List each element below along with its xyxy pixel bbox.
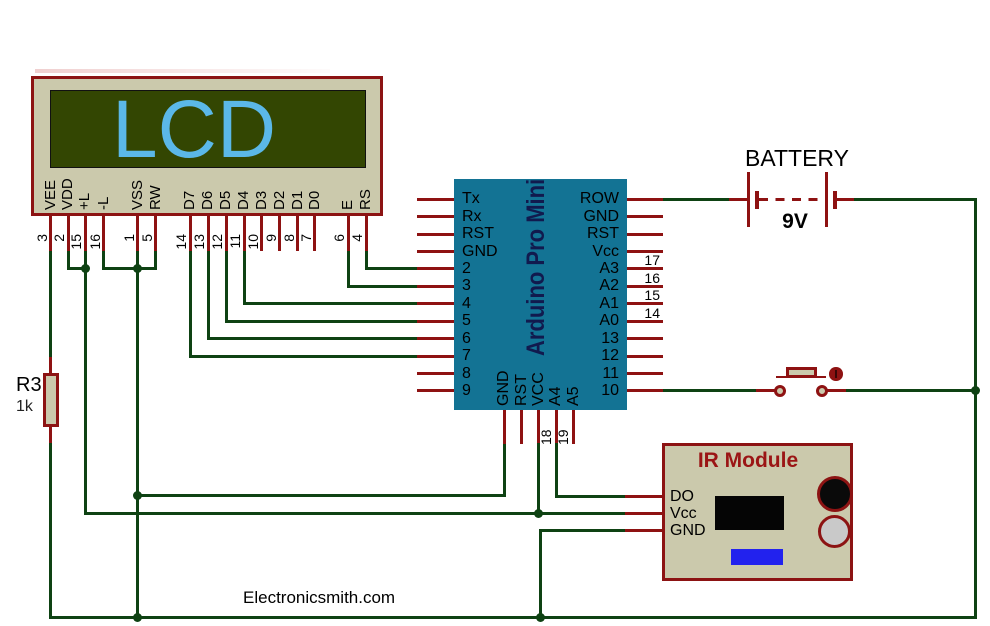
Arduino left pin label 7 [462, 347, 471, 365]
Arduino right pin stub ROW [627, 198, 663, 201]
LCD pin number 1 [121, 234, 137, 250]
wire D5 down [225, 251, 228, 323]
LCD pin D7 stub [189, 216, 192, 251]
node GND net junction bottom [133, 613, 142, 622]
battery dashed link [759, 198, 826, 201]
LCD module body LCD1 [31, 76, 383, 216]
Arduino left pin label 9 [462, 382, 471, 400]
Arduino pin number 17 [615, 252, 660, 268]
wire D4 down [243, 251, 246, 305]
wire VEE pin3 to R3 [49, 251, 52, 357]
LCD pin number 9 [263, 234, 279, 250]
Arduino right pin label RST [520, 225, 619, 243]
Arduino bottom pin label A4 [548, 386, 564, 406]
LCD pin label -L [96, 197, 112, 210]
LCD pin label VEE [43, 180, 59, 210]
wire A4 down [555, 443, 558, 497]
button SW1 right terminal [816, 385, 828, 397]
IR gray round sensor [818, 515, 851, 548]
Arduino left pin stub 9 [417, 389, 454, 392]
Arduino left pin label 6 [462, 330, 471, 348]
wire IR GND down [539, 530, 542, 619]
LCD pin D5 stub [225, 216, 228, 251]
Arduino left pin label RST [462, 225, 494, 243]
Arduino Pro Mini body U1 [454, 179, 627, 410]
button actuator bar [776, 376, 826, 379]
node VCC junction [534, 509, 543, 518]
IR pin Vcc stub [625, 512, 662, 515]
wire right rail vertical [974, 199, 977, 619]
wire D7 to Arduino pin7 [189, 355, 418, 358]
Arduino left pin label 8 [462, 365, 471, 383]
wire VSS pin1 down [136, 251, 139, 268]
Arduino right pin stub 13 [627, 337, 663, 340]
Arduino left pin stub Rx [417, 215, 454, 218]
LCD pin number 10 [245, 234, 261, 250]
Arduino left pin stub 4 [417, 302, 454, 305]
wire E to Arduino pin3 [347, 285, 418, 288]
IR black round sensor [817, 476, 853, 512]
LCD pin label D0 [307, 191, 323, 210]
Arduino right pin label A2 [520, 277, 619, 295]
LCD pin label VSS [130, 180, 146, 210]
battery plate short left [755, 191, 759, 210]
Arduino right pin stub 11 [627, 372, 663, 375]
LCD pin label RW [148, 185, 164, 210]
Arduino left pin label 2 [462, 260, 471, 278]
LCD pin label D7 [182, 191, 198, 210]
LCD pin RS stub [365, 216, 368, 251]
battery plate long right [825, 172, 828, 227]
LCD pin number 5 [139, 234, 155, 250]
LCD pin number 14 [173, 234, 189, 250]
LCD pin D2 stub [278, 216, 281, 251]
node GND net junction top [133, 264, 142, 273]
wire Arduino pin10 to button [663, 389, 757, 392]
Arduino left pin stub 6 [417, 337, 454, 340]
LCD pin number 2 [51, 234, 67, 250]
IR Module body [662, 443, 853, 581]
Arduino left pin stub 5 [417, 320, 454, 323]
wire VCC net vertical [84, 268, 87, 515]
wire E down [347, 251, 350, 288]
node IR GND junction [536, 613, 545, 622]
LCD pin label D6 [200, 191, 216, 210]
LCD pin D0 stub [313, 216, 316, 251]
LCD pin label VDD [60, 178, 76, 210]
IR receiver black box [715, 496, 784, 530]
button interactive knob [829, 367, 843, 381]
resistor R3 label [16, 374, 42, 396]
LCD pin label E [340, 200, 356, 210]
LCD pin label D4 [236, 191, 252, 210]
Arduino pin number 16 [615, 270, 660, 286]
wire D4 to Arduino pin4 [243, 302, 418, 305]
Arduino left pin stub 8 [417, 372, 454, 375]
wire -L pin16 down [102, 251, 105, 270]
Arduino left pin stub 2 [417, 267, 454, 270]
wire VCC net horizontal to IR Vcc [84, 512, 625, 515]
Arduino pin number 19 [555, 429, 571, 445]
Arduino right pin label 13 [520, 330, 619, 348]
LCD pin number 15 [68, 234, 84, 250]
wire +L pin15 down [84, 251, 87, 268]
LCD pin number 16 [87, 234, 103, 250]
Arduino pin number 15 [615, 287, 660, 303]
Arduino right pin stub A2 [627, 285, 663, 288]
Arduino bottom pin label VCC [531, 372, 547, 406]
IR pin GND stub [625, 529, 662, 532]
Arduino right pin label GND [520, 208, 619, 226]
Arduino right pin stub A0 [627, 320, 663, 323]
Arduino right pin label A0 [520, 312, 619, 330]
IR blue LED window [731, 549, 783, 565]
wire GND net to Arduino GND [138, 494, 506, 497]
Arduino right pin label 11 [520, 365, 619, 383]
wire battery to right rail [854, 198, 977, 201]
resistor R3 top lead [49, 357, 52, 373]
wire D7 down [189, 251, 192, 358]
wire A4 to IR DO [555, 495, 625, 498]
node VDD/+L junction [81, 264, 90, 273]
wire RW pin5 down [154, 251, 157, 270]
wire ROW to battery [663, 198, 730, 201]
Arduino left pin stub 7 [417, 355, 454, 358]
Arduino left pin stub GND [417, 250, 454, 253]
LCD pin D1 stub [296, 216, 299, 251]
LCD screen text [112, 96, 276, 164]
Arduino right pin label 12 [520, 347, 619, 365]
Arduino right pin label Vcc [520, 243, 619, 261]
Arduino right pin label A1 [520, 295, 619, 313]
IR pin label GND [670, 522, 706, 540]
Arduino bottom pin stub A4 [555, 410, 558, 444]
LCD pin number 6 [331, 234, 347, 250]
wire D6 down [207, 251, 210, 340]
LCD pin number 4 [349, 234, 365, 250]
Arduino right pin label A3 [520, 260, 619, 278]
node GND net junction mid [133, 491, 142, 500]
LCD pin -L stub [102, 216, 105, 251]
LCD pin D4 stub [243, 216, 246, 251]
LCD pin label D1 [290, 191, 306, 210]
battery left lead [729, 198, 750, 201]
wire bottom ground rail [49, 616, 977, 619]
Arduino left pin label 5 [462, 312, 471, 330]
Arduino bottom pin label GND [496, 370, 512, 406]
LCD pin VSS stub [136, 216, 139, 251]
Arduino left pin stub RST [417, 233, 454, 236]
Arduino left pin label 4 [462, 295, 471, 313]
LCD pin VDD stub [67, 216, 70, 251]
LCD pin number 12 [209, 234, 225, 250]
wire R3 to bottom rail [49, 443, 52, 619]
button left lead [756, 389, 776, 392]
button SW1 left terminal [774, 385, 786, 397]
Arduino pin number 18 [538, 429, 554, 445]
Arduino right pin stub 10 [627, 389, 663, 392]
IR pin label Vcc [670, 505, 697, 523]
wire Arduino VCC down [537, 443, 540, 513]
Arduino right pin stub RST [627, 233, 663, 236]
node button/right-rail junction [971, 386, 980, 395]
wire button to right rail [846, 389, 975, 392]
Arduino pin number 14 [615, 305, 660, 321]
Arduino right pin stub 12 [627, 355, 663, 358]
resistor R3 bottom lead [49, 427, 52, 443]
Arduino right pin stub Vcc [627, 250, 663, 253]
LCD screen display area [50, 90, 366, 168]
LCD pin number 13 [191, 234, 207, 250]
Arduino bottom pin stub GND [503, 410, 506, 444]
resistor R3 body [43, 373, 59, 427]
button actuator cap [786, 367, 817, 378]
IR Module title [688, 449, 808, 472]
Arduino bottom pin stub RST [520, 410, 523, 444]
LCD pin label D5 [218, 191, 234, 210]
Arduino right pin label ROW [520, 190, 619, 208]
Arduino left pin stub 3 [417, 285, 454, 288]
Arduino right pin label 10 [520, 382, 619, 400]
Arduino bottom pin label A5 [566, 386, 582, 406]
LCD pin D3 stub [260, 216, 263, 251]
wire IR GND left [539, 529, 626, 532]
battery plate short right [833, 191, 837, 210]
wire D5 to Arduino pin5 [225, 320, 418, 323]
Arduino left pin label GND [462, 243, 498, 261]
wire Arduino GND down [503, 444, 506, 497]
LCD pin label D2 [272, 191, 288, 210]
LCD pin number 7 [298, 234, 314, 250]
LCD pin D6 stub [207, 216, 210, 251]
wire D6 to Arduino pin6 [207, 337, 418, 340]
LCD pin label RS [358, 189, 374, 210]
Arduino bottom pin stub VCC [537, 410, 540, 444]
Arduino right pin stub A1 [627, 302, 663, 305]
battery label BATTERY [737, 146, 857, 171]
LCD pin +L stub [84, 216, 87, 251]
wire RS down [365, 251, 368, 270]
battery right lead [834, 198, 855, 201]
LCD pin label +L [77, 193, 93, 210]
LCD pin label D3 [254, 191, 270, 210]
LCD pin VEE stub [49, 216, 52, 251]
Arduino left pin label Tx [462, 190, 480, 208]
Arduino left pin stub Tx [417, 198, 454, 201]
wire VDD to +L junction [67, 267, 86, 270]
Arduino left pin label 3 [462, 277, 471, 295]
IR pin label DO [670, 488, 694, 506]
Arduino bottom pin stub A5 [572, 410, 575, 444]
button right lead [827, 389, 847, 392]
LCD pin number 3 [34, 234, 50, 250]
wire VDD pin2 down [67, 251, 70, 270]
LCD pin number 8 [281, 234, 297, 250]
Arduino left pin label Rx [462, 208, 482, 226]
resistor R3 value 1k [16, 398, 33, 416]
IR pin DO stub [625, 495, 662, 498]
Arduino bottom pin label RST [514, 374, 530, 406]
battery BT1 plate long left [747, 172, 750, 227]
wire GND net vertical [136, 268, 139, 619]
Arduino right pin stub A3 [627, 267, 663, 270]
wire -L / RW to VSS junction [102, 267, 157, 270]
Arduino right pin stub GND [627, 215, 663, 218]
artifact smear above LCD [35, 69, 330, 73]
LCD pin number 11 [227, 234, 243, 250]
LCD pin E stub [347, 216, 350, 251]
caption Electronicsmith.com [243, 588, 395, 607]
wire RS to Arduino pin2 [365, 267, 417, 270]
battery value 9V [770, 210, 820, 233]
LCD pin RW stub [154, 216, 157, 251]
